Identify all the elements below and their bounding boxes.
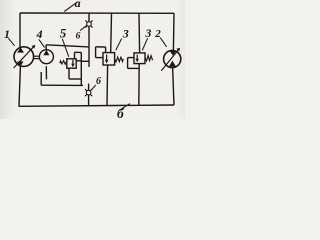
svg-text:6: 6 <box>96 76 101 87</box>
svg-text:3: 3 <box>122 27 129 41</box>
svg-text:1: 1 <box>4 27 10 41</box>
svg-text:3: 3 <box>144 26 151 40</box>
svg-text:6: 6 <box>76 32 81 42</box>
svg-text:5: 5 <box>60 25 67 40</box>
svg-text:2: 2 <box>154 28 161 40</box>
svg-text:а: а <box>75 0 81 10</box>
svg-text:4: 4 <box>36 27 43 41</box>
